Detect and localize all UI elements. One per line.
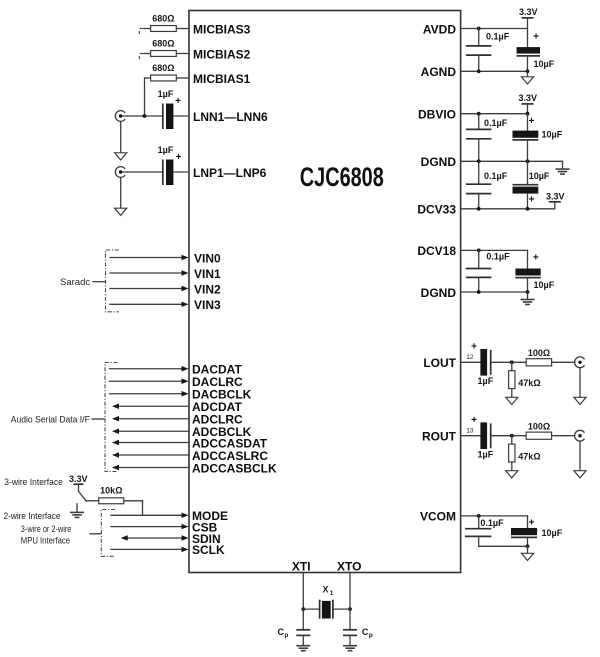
node bracket (audio serial group) (105, 363, 118, 472)
svg-text:DGND: DGND (421, 155, 457, 169)
wire VIN1 input arrow (110, 270, 189, 275)
svg-text:1µF: 1µF (478, 376, 494, 386)
svg-text:VIN2: VIN2 (194, 282, 221, 296)
svg-text:+: + (175, 96, 181, 107)
svg-text:10µF: 10µF (542, 129, 563, 139)
wire DACDAT input arrow (110, 366, 189, 371)
wire MODE input arrow (111, 513, 189, 518)
ground (DGND) (556, 161, 570, 174)
capacitor Cp (XTI) (296, 609, 310, 645)
svg-text:12: 12 (466, 354, 474, 361)
ground (VCOM) (521, 546, 533, 560)
wire VCOM rail (461, 515, 528, 517)
wire DGND2 rail (461, 291, 528, 293)
svg-text:100Ω: 100Ω (528, 348, 550, 358)
wire dashed stub (MICBIAS2) (139, 54, 143, 60)
svg-text:3-wire Interface: 3-wire Interface (4, 477, 63, 488)
svg-text:+: + (533, 31, 539, 42)
svg-text:ROUT: ROUT (422, 430, 457, 444)
wire ADCDAT output arrow (112, 404, 189, 409)
svg-text:0.1µF: 0.1µF (484, 171, 508, 181)
svg-text:+: + (471, 342, 477, 353)
svg-text:0.1µF: 0.1µF (486, 32, 510, 42)
svg-text:VIN0: VIN0 (194, 251, 221, 265)
svg-text:X: X (323, 585, 329, 595)
wire XTO (349, 573, 351, 610)
wire ROUT lead (461, 435, 481, 437)
ref label X1 (323, 585, 334, 598)
svg-text:+: + (533, 252, 539, 263)
svg-text:Saradc: Saradc (60, 277, 90, 288)
svg-text:CJC6808: CJC6808 (300, 162, 384, 192)
wire Saradc label dash (93, 281, 106, 283)
svg-text:LNN1—LNN6: LNN1—LNN6 (193, 110, 268, 124)
svg-text:10µF: 10µF (529, 171, 550, 181)
wire MICBIAS1 to LNN node (144, 78, 146, 116)
wire DACLRC input arrow (110, 379, 189, 384)
junction DBVIO/C5 (526, 112, 530, 116)
op-amp U1 CJC6808 chip body (189, 11, 461, 573)
svg-text:+: + (176, 152, 182, 163)
wire ADCCASBCLK output arrow (112, 465, 189, 470)
svg-text:3.3V: 3.3V (519, 7, 538, 17)
junction XTO/X1 (348, 607, 352, 611)
svg-text:1µF: 1µF (158, 145, 174, 155)
wire VCOM return (479, 545, 528, 547)
svg-text:3.3V: 3.3V (519, 93, 538, 103)
wire LOUT lead (461, 361, 481, 363)
capacitor 1µF (LNP) (163, 160, 189, 186)
resistor 47kΩ (ROUT) (509, 436, 515, 471)
node bracket (Saradc group) (106, 250, 119, 312)
resistor 680Ω (MICBIAS2) (144, 51, 189, 57)
wire dashed stub (MICBIAS3) (139, 29, 143, 35)
svg-text:LNP1—LNP6: LNP1—LNP6 (193, 166, 267, 180)
svg-text:3.3V: 3.3V (69, 474, 88, 484)
svg-text:p: p (284, 632, 288, 639)
junction DGND2/C8 (477, 290, 481, 294)
svg-text:+: + (471, 415, 477, 426)
svg-text:3-wire or 2-wire: 3-wire or 2-wire (21, 524, 72, 535)
svg-text:DGND: DGND (421, 286, 457, 300)
connector J (ROUT output) (575, 430, 585, 441)
capacitor 10µF (DCV18) (515, 250, 540, 292)
capacitor 0.1µF (VCOM) (465, 516, 491, 546)
ground (2-wire select) (70, 504, 84, 518)
svg-text:LOUT: LOUT (423, 356, 456, 370)
junction DGND/C5 (526, 159, 530, 163)
svg-text:+: + (529, 517, 535, 528)
capacitor 1µF (ROUT) (480, 422, 526, 449)
capacitor 0.1µF (AVDD) (466, 29, 492, 72)
capacitor 1µF (LNN) (163, 104, 189, 130)
wire DGND rail (461, 160, 563, 162)
resistor 10kΩ (86, 498, 142, 504)
svg-text:Audio Serial Data I/F: Audio Serial Data I/F (11, 414, 90, 425)
wire J1 to C-LNN (122, 115, 162, 117)
connector J1 (LNN input) (115, 111, 125, 122)
switch SW (3-wire/2-wire select) (79, 491, 87, 501)
svg-text:3.3V: 3.3V (546, 191, 565, 201)
capacitor 10µF (DBVIO) (513, 114, 539, 162)
wire 10kΩ to MODE node (142, 501, 144, 516)
svg-text:100Ω: 100Ω (528, 421, 550, 431)
junction ROUT/R47k (510, 434, 514, 438)
wire SCLK input arrow (111, 547, 189, 552)
ground (J LOUT) (574, 368, 586, 405)
ground (DGND2) (521, 292, 535, 305)
ground (below J2 LNP) (115, 177, 127, 215)
svg-text:MICBIAS3: MICBIAS3 (193, 22, 251, 36)
connector J2 (LNP input) (115, 167, 125, 178)
wire VIN0 input arrow (110, 255, 189, 260)
wire SDIN bidirectional arrow (121, 535, 189, 540)
capacitor 0.1µF (DBVIO) (466, 114, 492, 162)
svg-text:XTI: XTI (292, 560, 311, 574)
junction DGND/C4 (477, 159, 481, 163)
junction AVDD/C2 (477, 27, 481, 31)
value label Cp (XTI) (278, 627, 289, 639)
junction LOUT/R47k (510, 360, 514, 364)
svg-text:+: + (529, 194, 535, 205)
svg-text:47kΩ: 47kΩ (518, 378, 540, 388)
svg-text:AGND: AGND (421, 65, 457, 79)
capacitor 10µF (AVDD) (517, 47, 540, 71)
svg-text:p: p (369, 632, 373, 639)
capacitor Cp (XTO) (343, 609, 357, 645)
svg-text:AVDD: AVDD (423, 22, 456, 36)
svg-text:2-wire Interface: 2-wire Interface (4, 511, 61, 522)
wire audio label dash (92, 418, 105, 420)
resistor 100Ω (LOUT) (526, 359, 574, 366)
svg-text:10µF: 10µF (534, 59, 555, 69)
svg-text:DCV33: DCV33 (417, 203, 456, 217)
svg-text:+: + (529, 116, 535, 127)
junction VCOM/C10 (477, 514, 481, 518)
capacitor 10µF (VCOM) (511, 516, 537, 546)
svg-text:MICBIAS1: MICBIAS1 (193, 72, 251, 86)
resistor 680Ω (MICBIAS3) (144, 26, 189, 32)
svg-text:VIN3: VIN3 (194, 298, 221, 312)
wire DACBCLK input arrow (110, 391, 189, 396)
wire J2 to C-LNP (122, 171, 162, 173)
svg-text:XTO: XTO (337, 560, 361, 574)
svg-text:MICBIAS2: MICBIAS2 (193, 47, 251, 61)
power 3.3V (DBVIO) (522, 104, 534, 114)
wire DBVIO rail (461, 113, 528, 115)
capacitor 0.1µF (DCV18) (466, 250, 492, 292)
wire ADCCASDAT output arrow (112, 440, 189, 445)
junction AGND/C2 (477, 69, 481, 73)
power 3.3V (DCV33) (549, 202, 561, 209)
svg-text:1µF: 1µF (478, 449, 494, 459)
wire VIN2 input arrow (110, 286, 189, 291)
svg-text:10µF: 10µF (534, 280, 555, 290)
capacitor 10µF (DCV33) (513, 161, 539, 209)
ground (47kΩ ROUT) (506, 471, 518, 478)
svg-text:10µF: 10µF (542, 528, 563, 538)
ground (Cp XTO) (343, 645, 357, 647)
svg-text:10kΩ: 10kΩ (100, 485, 122, 495)
ground (J ROUT) (574, 441, 586, 478)
wire ADCLRC output arrow (112, 416, 189, 421)
junction DCV33/C6 (477, 207, 481, 211)
capacitor 0.1µF (DCV33) (466, 161, 492, 209)
svg-text:DBVIO: DBVIO (418, 108, 456, 122)
resistor 680Ω (MICBIAS1) (145, 75, 190, 81)
wire AVDD rail (461, 28, 528, 30)
junction DGND2/C9 (526, 290, 530, 294)
power 3.3V (AVDD) (522, 18, 534, 47)
svg-text:13: 13 (466, 428, 474, 435)
svg-text:680Ω: 680Ω (152, 39, 174, 49)
value label Cp (XTO) (362, 627, 373, 639)
junction DBVIO/C4 (477, 112, 481, 116)
wire MPU label dash (90, 533, 101, 535)
svg-text:DCV18: DCV18 (417, 244, 456, 258)
connector J (LOUT output) (575, 357, 585, 368)
ground (47kΩ LOUT) (506, 397, 518, 404)
svg-text:680Ω: 680Ω (152, 63, 174, 73)
junction DCV33/C7 (526, 207, 530, 211)
node bracket (MPU interface group) (101, 510, 115, 557)
junction XTI/X1 (301, 607, 305, 611)
wire VIN3 input arrow (110, 302, 189, 307)
svg-text:0.1µF: 0.1µF (480, 518, 504, 528)
junction AGND/C3 (526, 69, 530, 73)
junction DCV18/C8 (477, 249, 481, 253)
wire AGND rail (461, 70, 528, 72)
crystal X1 (303, 600, 350, 619)
svg-text:0.1µF: 0.1µF (486, 252, 510, 262)
svg-text:47kΩ: 47kΩ (518, 451, 540, 461)
junction VCOM return (526, 544, 530, 548)
svg-text:0.1µF: 0.1µF (484, 118, 508, 128)
svg-text:MPU Interface: MPU Interface (21, 536, 70, 547)
junction node LNN (143, 114, 147, 118)
wire ADCCASLRC output arrow (112, 452, 189, 457)
svg-text:ADCCASBCLK: ADCCASBCLK (192, 461, 277, 475)
ground (Cp XTI) (296, 645, 310, 647)
wire ADCBCLK output arrow (112, 429, 189, 434)
ground (below J1 LNN) (115, 121, 127, 160)
svg-text:SCLK: SCLK (192, 543, 225, 557)
svg-text:1: 1 (330, 590, 334, 597)
wire XTI (302, 573, 304, 610)
capacitor 1µF (LOUT) (480, 349, 526, 376)
svg-text:680Ω: 680Ω (152, 14, 174, 24)
resistor 47kΩ (LOUT) (509, 362, 515, 397)
svg-text:1µF: 1µF (158, 89, 174, 99)
wire DCV18 rail (461, 249, 528, 251)
svg-text:VIN1: VIN1 (194, 267, 221, 281)
svg-text:VCOM: VCOM (420, 510, 456, 524)
resistor 100Ω (ROUT) (526, 432, 574, 439)
wire DCV33 rail (461, 208, 555, 210)
wire CSB input arrow (111, 524, 189, 529)
power 3.3V (MODE pull-up) (74, 484, 84, 491)
ground (AGND) (521, 71, 533, 84)
